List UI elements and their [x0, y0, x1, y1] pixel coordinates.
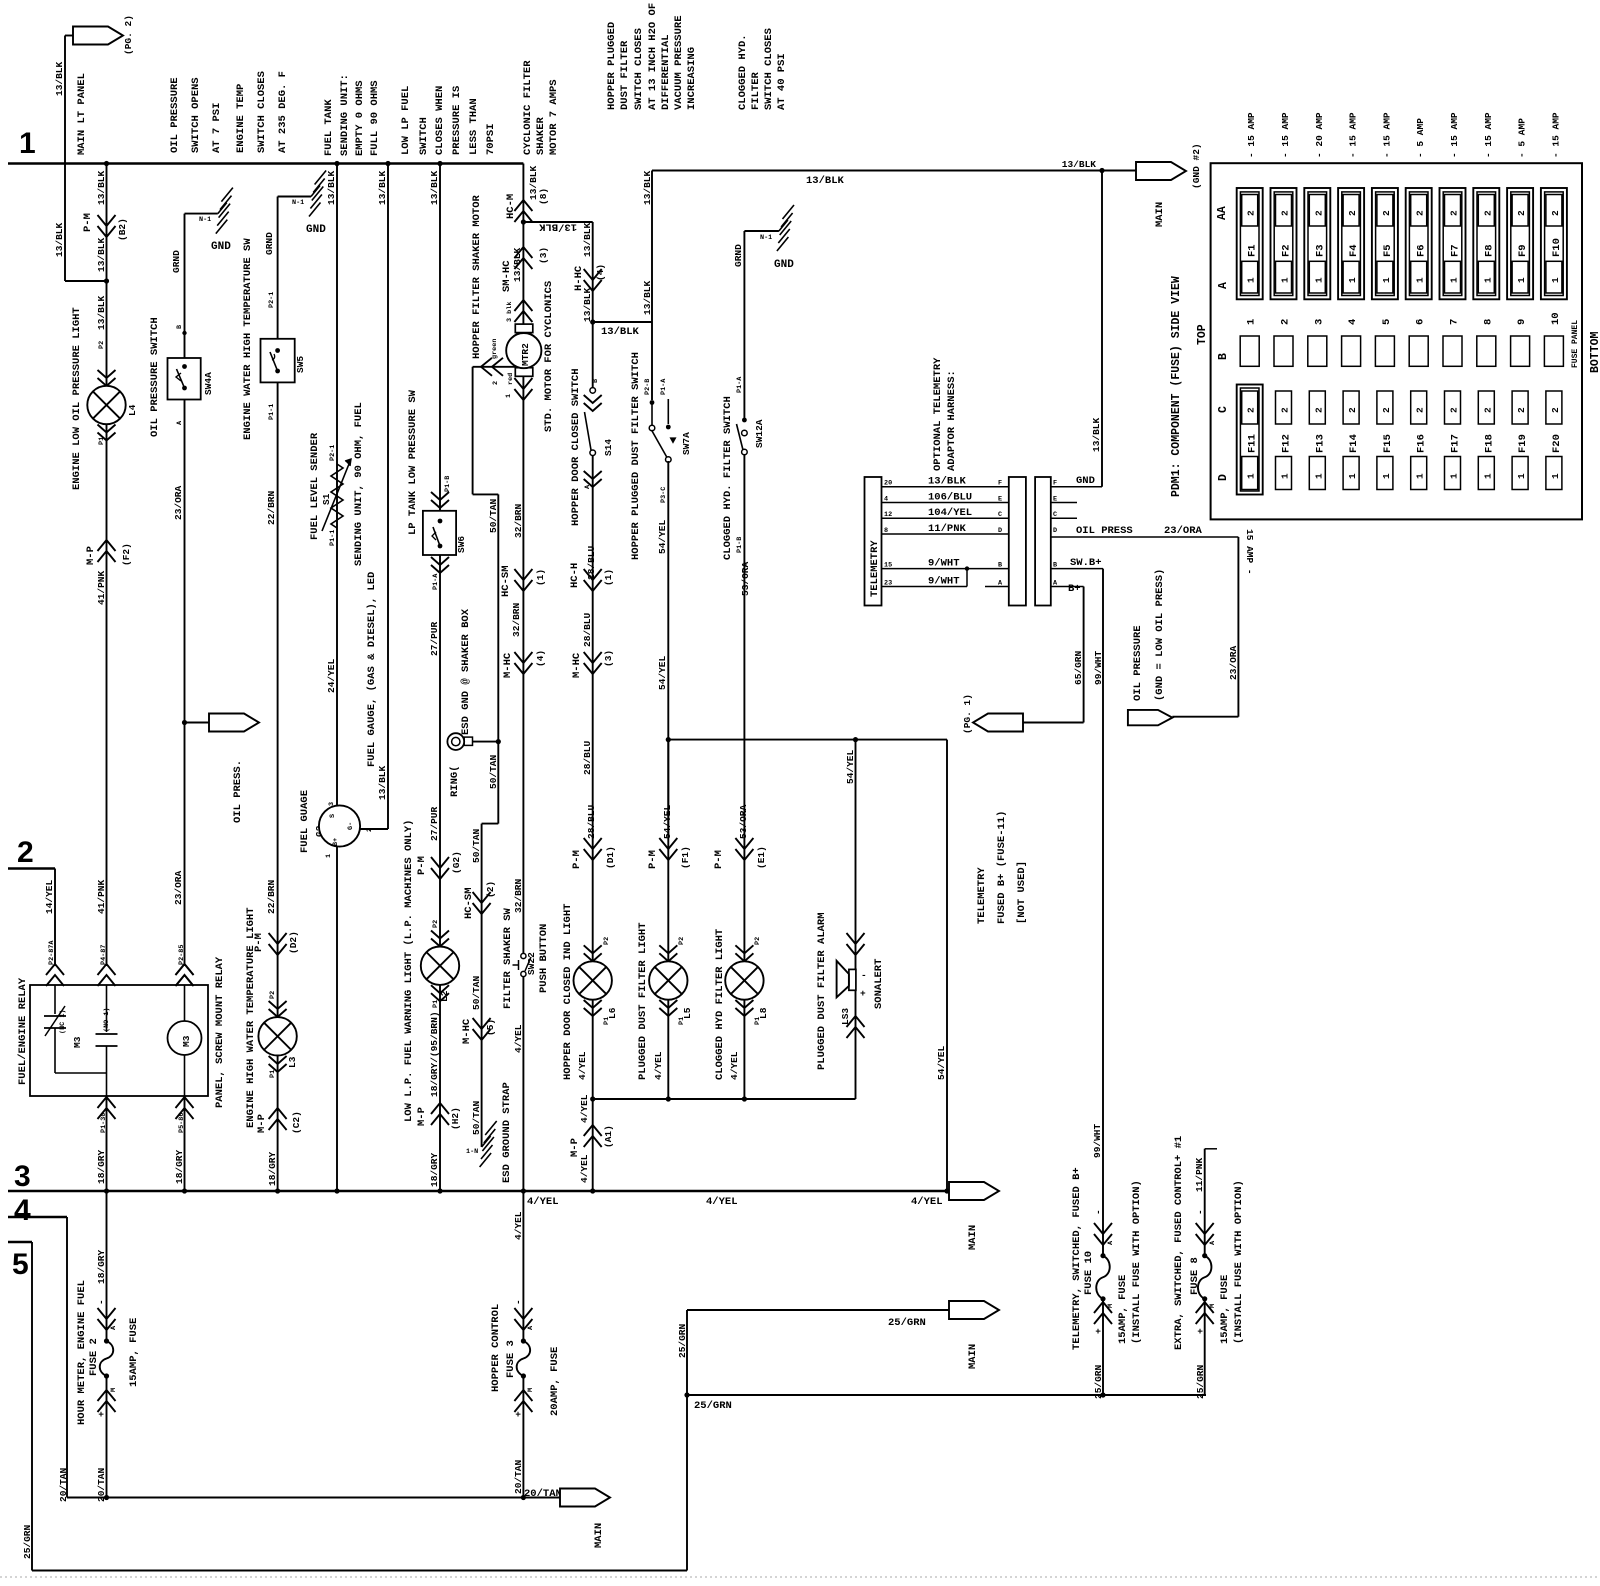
ground (engine water temp switch)	[278, 196, 311, 198]
svg-text:10: 10	[1550, 312, 1562, 325]
svg-text:P3-C: P3-C	[660, 487, 668, 503]
svg-text:B: B	[998, 562, 1002, 570]
svg-text:F16: F16	[1416, 434, 1428, 453]
svg-text:54/YEL: 54/YEL	[662, 804, 673, 839]
svg-text:23: 23	[884, 580, 892, 588]
svg-text:18/GRY: 18/GRY	[429, 1152, 440, 1187]
svg-text:AT 40 PSI: AT 40 PSI	[776, 53, 788, 110]
svg-text:25/GRN: 25/GRN	[22, 1524, 33, 1559]
fuse F16	[1411, 391, 1427, 424]
svg-text:13/BLK: 13/BLK	[582, 222, 593, 257]
svg-text:FUSE 2: FUSE 2	[88, 1338, 100, 1376]
svg-text:1: 1	[1246, 319, 1258, 325]
svg-text:25/GRN: 25/GRN	[888, 1317, 926, 1329]
svg-text:2: 2	[1313, 210, 1324, 216]
connector M-P (H2)	[431, 1103, 449, 1114]
svg-text:15: 15	[884, 562, 892, 570]
svg-text:MTR2: MTR2	[520, 343, 531, 366]
svg-text:1: 1	[1449, 277, 1460, 283]
connector M-P (C2)	[269, 1108, 287, 1119]
svg-text:CLOSES WHEN: CLOSES WHEN	[434, 86, 446, 155]
svg-text:F3: F3	[1314, 244, 1326, 257]
svg-text:50/TAN: 50/TAN	[471, 975, 482, 1010]
svg-text:99/WHT: 99/WHT	[1092, 1123, 1103, 1158]
svg-text:S1: S1	[321, 493, 332, 505]
svg-text:AT 13 INCH H2O OF: AT 13 INCH H2O OF	[647, 3, 659, 110]
wire 54/YEL SW7A output	[667, 461, 669, 835]
svg-text:RING(: RING(	[449, 765, 461, 797]
svg-text:13/BLK: 13/BLK	[377, 765, 388, 800]
fuse F11	[1237, 385, 1263, 495]
svg-text:M-HC: M-HC	[461, 1018, 473, 1044]
wire rail 5 / 25/GRN run	[8, 1241, 32, 1243]
svg-text:2: 2	[1449, 210, 1460, 216]
svg-text:FUSE 10: FUSE 10	[1083, 1251, 1095, 1295]
svg-text:- 5 AMP: - 5 AMP	[1517, 118, 1528, 158]
svg-text:50/TAN: 50/TAN	[471, 1100, 482, 1135]
svg-text:-: -	[1093, 1209, 1104, 1215]
svg-text:+: +	[96, 1411, 107, 1417]
svg-text:1: 1	[1550, 277, 1561, 283]
svg-text:18/GRY/(95/BRN): 18/GRY/(95/BRN)	[429, 1011, 440, 1097]
svg-text:8: 8	[884, 527, 888, 535]
wire GND pin F	[1051, 486, 1102, 488]
wire 9/WHT telemetry row A	[882, 586, 968, 588]
svg-text:20AMP, FUSE: 20AMP, FUSE	[549, 1347, 561, 1416]
node 4/YEL tie	[590, 1096, 595, 1101]
svg-text:28/BLU: 28/BLU	[582, 740, 593, 775]
svg-text:AA: AA	[1216, 206, 1229, 220]
node junction 13/BLK	[521, 219, 526, 224]
svg-text:(E1): (E1)	[756, 846, 767, 869]
svg-text:STD. MOTOR FOR CYCLONICS: STD. MOTOR FOR CYCLONICS	[543, 281, 555, 432]
svg-text:104/YEL: 104/YEL	[928, 507, 972, 519]
svg-text:(1): (1)	[603, 569, 614, 586]
svg-text:FILTER: FILTER	[750, 71, 762, 110]
svg-text:P1-1: P1-1	[329, 530, 337, 546]
svg-text:(PG. 1): (PG. 1)	[962, 694, 973, 734]
connector M-HC (5)	[473, 1018, 491, 1029]
svg-text:[NOT USED]: [NOT USED]	[1016, 861, 1028, 924]
svg-text:(1): (1)	[535, 569, 546, 586]
svg-text:LESS THAN: LESS THAN	[468, 98, 480, 155]
wire to P-M F1 and lamp L5	[667, 740, 669, 1099]
svg-text:1: 1	[19, 127, 36, 160]
svg-text:ENGINE HIGH WATER TEMPERATURE: ENGINE HIGH WATER TEMPERATURE LIGHT	[245, 907, 257, 1128]
svg-text:HOPPER DOOR CLOSED SWITCH: HOPPER DOOR CLOSED SWITCH	[570, 368, 582, 526]
svg-text:SW12A: SW12A	[754, 419, 765, 448]
svg-text:4/YEL: 4/YEL	[513, 1024, 524, 1053]
svg-text:G-: G-	[347, 822, 355, 830]
svg-text:P-M: P-M	[571, 850, 583, 869]
svg-text:OPTIONAL TELEMETRY: OPTIONAL TELEMETRY	[932, 357, 944, 471]
svg-text:D: D	[998, 527, 1002, 535]
svg-text:E: E	[998, 496, 1002, 504]
svg-text:- 15 AMP: - 15 AMP	[1348, 112, 1359, 158]
svg-text:P1-A: P1-A	[660, 378, 668, 395]
svg-text:25/GRN: 25/GRN	[1093, 1364, 1104, 1399]
svg-text:GRND: GRND	[264, 232, 275, 255]
svg-text:HC-H: HC-H	[569, 563, 581, 588]
svg-text:54/YEL: 54/YEL	[657, 655, 668, 690]
svg-text:B: B	[176, 325, 184, 329]
svg-text:B+: B+	[1068, 583, 1081, 595]
svg-text:N-1: N-1	[199, 216, 211, 224]
svg-text:2: 2	[1415, 210, 1426, 216]
svg-text:(PG. 2): (PG. 2)	[123, 15, 134, 55]
svg-text:P-M: P-M	[647, 850, 659, 869]
svg-text:MOTOR 7 AMPS: MOTOR 7 AMPS	[548, 79, 560, 155]
svg-text:OIL PRESS: OIL PRESS	[1076, 525, 1133, 537]
svg-text:OIL PRESSURE: OIL PRESSURE	[169, 77, 181, 153]
svg-text:P2: P2	[754, 937, 762, 945]
svg-text:2: 2	[1482, 407, 1493, 413]
ground ESD GROUND STRAP	[482, 1136, 491, 1147]
svg-text:7: 7	[1449, 319, 1461, 325]
connector motor pin 3	[514, 300, 532, 311]
fuse F13	[1309, 391, 1325, 424]
svg-text:20/TAN: 20/TAN	[96, 1467, 107, 1502]
svg-text:D: D	[1217, 474, 1230, 481]
svg-text:GND: GND	[1076, 475, 1095, 487]
svg-text:50/TAN: 50/TAN	[471, 828, 482, 863]
svg-text:1: 1	[1246, 473, 1257, 479]
svg-text:P2: P2	[98, 341, 106, 349]
svg-text:F4: F4	[1348, 244, 1360, 257]
fuse F20	[1546, 391, 1562, 424]
svg-text:-: -	[96, 1299, 107, 1305]
svg-text:(D2): (D2)	[288, 931, 299, 954]
svg-text:2: 2	[1516, 210, 1527, 216]
svg-text:-: -	[861, 970, 867, 981]
svg-text:P1: P1	[98, 437, 106, 445]
svg-text:20/TAN: 20/TAN	[58, 1467, 69, 1502]
svg-text:13/BLK: 13/BLK	[642, 170, 653, 205]
svg-text:2: 2	[492, 381, 500, 385]
svg-text:LOW L.P. FUEL WARNING LIGHT (L: LOW L.P. FUEL WARNING LIGHT (L.P. MACHIN…	[403, 820, 415, 1122]
terminal RING ESD GND @ SHAKER BOX	[447, 733, 464, 750]
svg-text:P4-87: P4-87	[100, 945, 108, 965]
svg-text:PUSH BUTTON: PUSH BUTTON	[538, 924, 550, 993]
svg-text:15AMP, FUSE: 15AMP, FUSE	[1117, 1275, 1129, 1344]
svg-text:F2: F2	[1281, 244, 1293, 257]
svg-text:3: 3	[14, 1160, 31, 1193]
wire 53/ORA	[743, 454, 745, 1099]
svg-text:CLOGGED HYD. FILTER SWITCH: CLOGGED HYD. FILTER SWITCH	[722, 396, 734, 560]
svg-text:(B2): (B2)	[117, 218, 128, 241]
svg-text:AT 235 DEG. F: AT 235 DEG. F	[277, 71, 289, 153]
svg-text:(INSTALL FUSE WITH OPTION): (INSTALL FUSE WITH OPTION)	[1131, 1180, 1143, 1344]
arrow MAIN (25/GRN)	[949, 1301, 999, 1319]
svg-text:1: 1	[1246, 277, 1257, 283]
svg-text:SW22: SW22	[526, 952, 537, 975]
svg-text:HOPPER FILTER SHAKER MOTOR: HOPPER FILTER SHAKER MOTOR	[471, 194, 483, 359]
svg-text:13/BLK: 13/BLK	[429, 170, 440, 205]
svg-text:HC-SM: HC-SM	[463, 887, 475, 919]
svg-text:2: 2	[1280, 319, 1292, 325]
svg-text:TOP: TOP	[1196, 324, 1209, 345]
svg-text:L8: L8	[758, 1007, 769, 1019]
svg-text:HC-SM: HC-SM	[500, 565, 512, 597]
svg-text:4/YEL: 4/YEL	[729, 1051, 740, 1080]
svg-text:SW6: SW6	[456, 536, 467, 553]
svg-text:INCREASING: INCREASING	[686, 47, 698, 110]
svg-text:F20: F20	[1551, 434, 1563, 453]
svg-text:GND: GND	[306, 224, 326, 236]
connector HC-H (1)	[584, 569, 602, 580]
wire rail 4 / 20/TAN run	[8, 1216, 67, 1218]
svg-text:(GND = LOW OIL PRESS): (GND = LOW OIL PRESS)	[1154, 569, 1166, 701]
svg-text:41/PNK: 41/PNK	[96, 570, 107, 605]
svg-text:(3): (3)	[603, 650, 614, 667]
svg-text:FUSED B+ (FUSE-11): FUSED B+ (FUSE-11)	[996, 811, 1008, 924]
svg-text:C: C	[998, 511, 1002, 519]
svg-text:P1-B: P1-B	[444, 476, 452, 492]
svg-text:GND: GND	[211, 241, 231, 253]
svg-text:HOPPER PLUGGED: HOPPER PLUGGED	[606, 22, 618, 110]
wire 11/PNK telemetry row D	[882, 533, 1009, 535]
svg-text:13/BLK: 13/BLK	[601, 326, 640, 338]
ground (clogged hyd filter switch)	[744, 230, 779, 232]
arrow MAIN (20/TAN)	[560, 1489, 610, 1507]
svg-text:1: 1	[1347, 473, 1358, 479]
svg-text:DUST FILTER: DUST FILTER	[619, 40, 631, 110]
svg-text:1: 1	[505, 394, 513, 398]
svg-text:13/BLK: 13/BLK	[928, 476, 967, 488]
svg-text:D: D	[1053, 527, 1057, 535]
svg-text:4: 4	[14, 1194, 31, 1227]
svg-text:13/BLK: 13/BLK	[512, 247, 523, 282]
svg-text:(8): (8)	[538, 188, 549, 205]
svg-text:FUSE 8: FUSE 8	[1189, 1257, 1201, 1295]
svg-text:- 15 AMP: - 15 AMP	[1381, 112, 1392, 158]
svg-text:+: +	[513, 1411, 524, 1417]
svg-text:-: -	[1195, 1209, 1206, 1215]
svg-text:2: 2	[1415, 407, 1426, 413]
wire 18/GRY to fuse 2	[106, 1191, 108, 1341]
connector P-M (G2)	[431, 857, 449, 868]
svg-text:M: M	[527, 1388, 535, 1392]
svg-text:P2: P2	[432, 920, 440, 928]
svg-text:1: 1	[1347, 277, 1358, 283]
svg-text:CLOGGED HYD FILTER LIGHT: CLOGGED HYD FILTER LIGHT	[714, 929, 726, 1080]
wire 25/GRN riser and branches	[686, 1310, 688, 1571]
svg-text:P1-A: P1-A	[736, 376, 744, 393]
svg-text:2: 2	[1280, 210, 1291, 216]
svg-text:ADAPTOR HARNESS:: ADAPTOR HARNESS:	[946, 370, 958, 471]
wire G2 bottom to rail 3	[336, 847, 338, 1192]
connector M-HC (3)	[584, 652, 602, 663]
svg-text:(NC 1): (NC 1)	[59, 1010, 67, 1034]
svg-text:MAIN: MAIN	[1154, 202, 1166, 227]
svg-text:M3: M3	[72, 1036, 83, 1048]
svg-text:50/TAN: 50/TAN	[488, 754, 499, 789]
svg-text:M-P: M-P	[256, 1114, 268, 1133]
wire 18/GRY relay outputs to rail 3	[106, 1096, 108, 1191]
svg-text:SONALERT: SONALERT	[873, 959, 885, 1009]
svg-text:13/BLK: 13/BLK	[54, 222, 65, 257]
wire 13/BLK from PG2 arrow	[65, 35, 73, 37]
connector halves (adaptor)	[1009, 477, 1026, 606]
svg-text:70PSI: 70PSI	[485, 123, 497, 155]
svg-text:(3): (3)	[538, 247, 549, 264]
svg-text:32/BRN: 32/BRN	[513, 878, 524, 913]
svg-text:2: 2	[17, 836, 34, 869]
connector SM-HC (3)	[514, 247, 532, 258]
svg-text:18/GRY: 18/GRY	[174, 1149, 185, 1184]
svg-text:(C2): (C2)	[291, 1111, 302, 1134]
svg-text:L2: L2	[439, 990, 450, 1002]
svg-text:S: S	[329, 814, 337, 818]
svg-text:HC-M: HC-M	[505, 194, 517, 219]
svg-text:13/BLK: 13/BLK	[1062, 159, 1097, 170]
svg-text:FUSE 3: FUSE 3	[505, 1340, 517, 1378]
svg-text:+: +	[860, 988, 866, 999]
svg-text:P2-B: P2-B	[644, 379, 652, 395]
connector P-M (D2)	[269, 933, 287, 944]
svg-text:EXTRA, SWITCHED, FUSED CONTROL: EXTRA, SWITCHED, FUSED CONTROL+ #1	[1173, 1136, 1185, 1350]
wire fuel sender column	[336, 164, 338, 807]
svg-text:1-N: 1-N	[466, 1148, 478, 1156]
svg-text:FUEL LEVEL SENDER: FUEL LEVEL SENDER	[309, 432, 321, 540]
svg-text:2: 2	[1313, 407, 1324, 413]
wire B+ pin A / 65/GRN	[1051, 586, 1084, 588]
svg-text:M: M	[110, 1388, 118, 1392]
svg-text:MAIN: MAIN	[967, 1225, 979, 1250]
svg-text:65/GRN: 65/GRN	[1073, 650, 1084, 685]
svg-text:M-P: M-P	[416, 1107, 428, 1126]
svg-text:SWITCH: SWITCH	[418, 117, 430, 155]
svg-text:HOPPER CONTROL: HOPPER CONTROL	[490, 1304, 502, 1392]
svg-text:LP TANK LOW PRESSURE SW: LP TANK LOW PRESSURE SW	[407, 389, 419, 535]
svg-text:106/BLU: 106/BLU	[928, 492, 972, 504]
svg-text:11/PNK: 11/PNK	[1194, 1157, 1205, 1192]
svg-text:2: 2	[1381, 407, 1392, 413]
svg-text:20: 20	[884, 480, 892, 488]
wire 4/YEL to fuse 3	[522, 1191, 524, 1341]
svg-text:FILTER SHAKER SW: FILTER SHAKER SW	[502, 907, 514, 1009]
svg-text:P-M: P-M	[82, 213, 94, 232]
svg-text:- 15 AMP: - 15 AMP	[1449, 112, 1460, 158]
svg-text:F12: F12	[1281, 434, 1293, 453]
svg-text:P2-87A: P2-87A	[48, 940, 56, 965]
svg-text:15AMP, FUSE: 15AMP, FUSE	[1219, 1275, 1231, 1344]
wire 13/BLK telemetry row F	[882, 486, 1009, 488]
svg-text:FUEL GUAGE: FUEL GUAGE	[299, 790, 311, 853]
svg-text:CLOGGED HYD.: CLOGGED HYD.	[737, 34, 749, 110]
svg-text:F9: F9	[1517, 244, 1529, 257]
connector TELEMETRY block	[865, 477, 882, 606]
svg-text:OIL PRESS.: OIL PRESS.	[232, 760, 244, 823]
svg-text:13/BLK: 13/BLK	[96, 237, 107, 272]
svg-text:- 5 AMP: - 5 AMP	[1415, 118, 1426, 158]
svg-text:(4): (4)	[595, 264, 606, 281]
svg-text:4/YEL: 4/YEL	[706, 1196, 738, 1208]
svg-text:4/YEL: 4/YEL	[513, 1211, 524, 1240]
wire stub pin E	[1051, 502, 1077, 504]
svg-text:4: 4	[1347, 319, 1359, 325]
arrow MAIN (rail 3)	[949, 1182, 999, 1200]
svg-text:F17: F17	[1450, 434, 1462, 453]
svg-text:53/ORA: 53/ORA	[738, 804, 749, 839]
wire 25/GRN below fuse 10	[1100, 1392, 1105, 1397]
svg-text:red: red	[507, 373, 515, 385]
svg-text:P2: P2	[603, 937, 611, 945]
wire 27/PUR to L2	[439, 875, 441, 1191]
svg-text:22/BRN: 22/BRN	[266, 490, 277, 525]
connector P-M (B2)	[98, 215, 116, 226]
svg-text:SW4A: SW4A	[203, 372, 214, 395]
svg-text:2: 2	[1482, 210, 1493, 216]
svg-text:25/GRN: 25/GRN	[677, 1323, 688, 1358]
svg-text:(A1): (A1)	[603, 1125, 614, 1148]
svg-text:9/WHT: 9/WHT	[928, 558, 960, 570]
svg-text:+: +	[1093, 1328, 1104, 1334]
svg-text:20/TAN: 20/TAN	[513, 1459, 524, 1494]
svg-text:M-P: M-P	[85, 546, 97, 565]
wire 13/BLK HC-M column	[522, 164, 524, 325]
svg-text:P2-1: P2-1	[268, 292, 276, 308]
svg-text:54/YEL: 54/YEL	[657, 519, 668, 554]
switch SW7A HOPPER PLUGGED DUST FILTER SWITCH	[651, 322, 653, 400]
svg-text:5: 5	[1381, 319, 1393, 325]
svg-text:HOUR METER, ENGINE FUEL: HOUR METER, ENGINE FUEL	[76, 1280, 88, 1425]
svg-text:- 15 AMP: - 15 AMP	[1550, 112, 1561, 158]
svg-text:(NO 1): (NO 1)	[103, 1008, 111, 1032]
svg-text:13/BLK: 13/BLK	[96, 295, 107, 330]
svg-text:OIL PRESSURE SWITCH: OIL PRESSURE SWITCH	[149, 317, 161, 437]
svg-text:6: 6	[1415, 319, 1427, 325]
svg-text:HOPPER DOOR CLOSED IND LIGHT: HOPPER DOOR CLOSED IND LIGHT	[562, 904, 574, 1080]
svg-text:SWITCH CLOSES: SWITCH CLOSES	[763, 28, 775, 110]
fuse F19	[1512, 391, 1528, 424]
svg-text:FUEL GAUGE, (GAS & DIESEL), LE: FUEL GAUGE, (GAS & DIESEL), LED	[366, 572, 378, 767]
svg-text:F1: F1	[1247, 244, 1259, 257]
svg-text:1: 1	[1482, 473, 1493, 479]
svg-text:L4: L4	[127, 404, 138, 416]
svg-text:13/BLK: 13/BLK	[326, 170, 337, 205]
svg-text:SWITCH CLOSES: SWITCH CLOSES	[256, 71, 268, 153]
svg-text:P1-A: P1-A	[432, 573, 440, 590]
svg-text:2: 2	[1280, 407, 1291, 413]
svg-text:SWITCH CLOSES: SWITCH CLOSES	[633, 28, 645, 110]
svg-text:25/GRN: 25/GRN	[1195, 1364, 1206, 1399]
wire 13/BLK rail segment 2 (top right)	[652, 170, 1136, 172]
svg-text:F8: F8	[1483, 244, 1495, 257]
svg-text:(INSTALL FUSE WITH OPTION): (INSTALL FUSE WITH OPTION)	[1233, 1180, 1245, 1344]
svg-text:ESD GROUND STRAP: ESD GROUND STRAP	[501, 1082, 513, 1183]
svg-text:(5): (5)	[485, 1019, 496, 1036]
svg-text:13/BLK: 13/BLK	[54, 61, 65, 96]
svg-text:1: 1	[1449, 473, 1460, 479]
svg-text:B: B	[592, 379, 600, 383]
svg-text:2: 2	[1550, 407, 1561, 413]
svg-text:C: C	[1217, 406, 1230, 413]
svg-text:SENDING UNIT, 90 OHM, FUEL: SENDING UNIT, 90 OHM, FUEL	[353, 402, 365, 566]
svg-text:- 15 AMP: - 15 AMP	[1246, 112, 1257, 158]
svg-text:14/YEL: 14/YEL	[44, 879, 55, 914]
svg-text:PLUGGED DUST FILTER LIGHT: PLUGGED DUST FILTER LIGHT	[637, 922, 649, 1080]
connector motor pin 1	[514, 378, 532, 389]
wire stub pin C	[1051, 517, 1077, 519]
connector HC-M (8)	[514, 200, 532, 211]
svg-text:L6: L6	[607, 1007, 618, 1019]
svg-text:P2: P2	[678, 937, 686, 945]
svg-text:- 15 AMP: - 15 AMP	[1280, 112, 1291, 158]
svg-text:23/ORA: 23/ORA	[1228, 645, 1239, 680]
svg-text:11/PNK: 11/PNK	[928, 523, 967, 535]
svg-text:1: 1	[1280, 277, 1291, 283]
